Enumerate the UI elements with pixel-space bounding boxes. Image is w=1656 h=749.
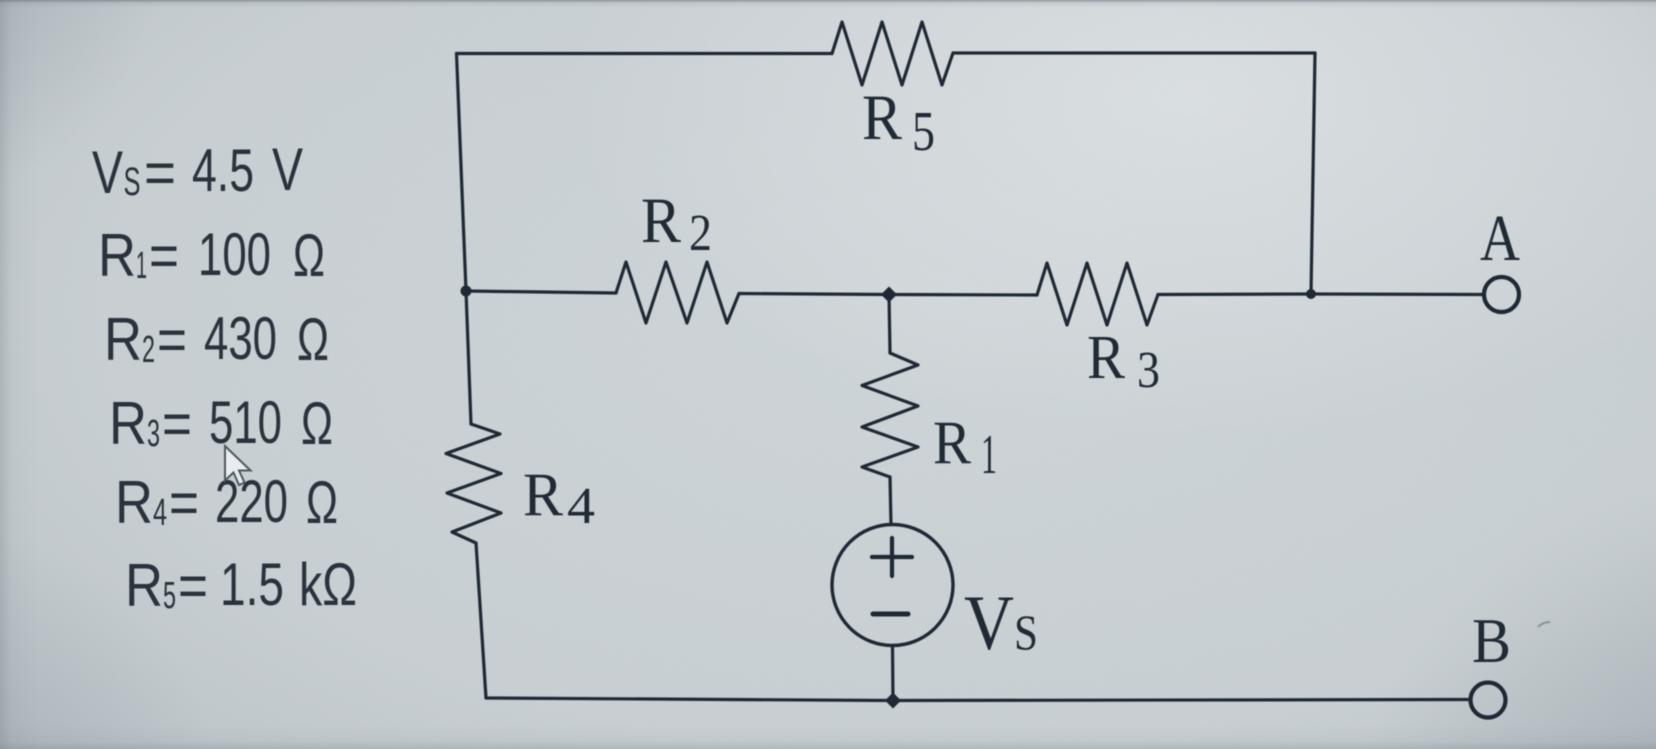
svg-text:1: 1: [981, 424, 997, 486]
svg-text:510: 510: [209, 389, 282, 456]
wire middle node to R3: [889, 293, 1037, 297]
node junction bottom: [885, 693, 901, 709]
value line R1= 100 ohm: [98, 221, 325, 289]
wire right vertical (top to node): [1311, 53, 1315, 294]
resistor R2: [616, 262, 739, 323]
svg-text:5: 5: [912, 101, 935, 163]
wire right node to terminal A: [1311, 292, 1484, 296]
svg-text:S: S: [1014, 604, 1038, 660]
svg-text:4: 4: [567, 478, 595, 535]
svg-text:R: R: [104, 306, 142, 373]
svg-text:R: R: [109, 390, 147, 457]
svg-text:Ω: Ω: [306, 469, 338, 536]
svg-text:430: 430: [204, 305, 277, 372]
svg-text:=: =: [162, 390, 192, 457]
resistor R4: [446, 424, 501, 543]
svg-text:2: 2: [689, 205, 712, 262]
svg-text:R: R: [115, 469, 153, 536]
value line VS= 4.5 V: [92, 136, 303, 206]
left value list: [92, 136, 357, 619]
svg-text:V: V: [92, 139, 123, 206]
VS minus sign: [873, 612, 908, 617]
svg-text:3: 3: [147, 413, 160, 455]
resistor R5: [832, 22, 953, 85]
svg-text:B: B: [1472, 605, 1511, 676]
svg-text:V: V: [964, 579, 1014, 666]
svg-text:Ω: Ω: [293, 222, 325, 289]
node junction middle: [881, 287, 897, 303]
label R3: [1087, 324, 1160, 399]
svg-text:2: 2: [142, 329, 155, 371]
svg-text:100: 100: [198, 221, 271, 288]
svg-text:V: V: [272, 136, 303, 203]
wire R1 to source VS: [890, 477, 891, 525]
svg-text:R: R: [98, 222, 136, 289]
svg-text:R: R: [1087, 324, 1126, 392]
svg-text:3: 3: [1137, 342, 1160, 399]
terminal B circle: [1471, 683, 1506, 718]
node junction left: [461, 286, 472, 297]
terminal A circle: [1484, 277, 1519, 312]
svg-text:Ω: Ω: [297, 306, 329, 373]
value line R3= 510 ohm: [109, 389, 333, 457]
wire R2 to middle node: [739, 294, 889, 295]
svg-text:R: R: [125, 552, 163, 619]
wire left vertical bottom: [476, 543, 486, 698]
label R5: [862, 82, 935, 163]
value line R2= 430 ohm: [104, 305, 329, 373]
label R1: [933, 410, 997, 486]
scratch mark near B: [1538, 622, 1550, 627]
svg-text:=: =: [169, 469, 199, 536]
svg-text:R: R: [523, 462, 563, 529]
svg-text:R: R: [641, 185, 682, 257]
node junction right: [1306, 289, 1316, 299]
svg-text:R: R: [862, 82, 903, 154]
svg-text:=: =: [157, 306, 187, 373]
VS plus sign: [872, 538, 912, 576]
wire top horizontal right: [953, 51, 1315, 54]
value line R4= 220 ohm: [115, 468, 338, 536]
svg-text:4.5: 4.5: [192, 137, 254, 204]
svg-text:=: =: [178, 552, 208, 619]
svg-text:=: =: [144, 139, 176, 206]
wire middle node down to R1: [889, 295, 890, 354]
wire top horizontal left: [457, 52, 833, 55]
svg-text:5: 5: [163, 575, 176, 617]
resistor R1: [862, 353, 918, 477]
value line R5= 1.5 kohm: [125, 551, 357, 619]
svg-text:1: 1: [136, 245, 147, 287]
svg-text:kΩ: kΩ: [299, 551, 357, 618]
wire middle horizontal: node to R2: [466, 291, 616, 293]
voltage source VS circle: [832, 525, 953, 646]
wire R3 to right node: [1158, 292, 1311, 296]
svg-text:=: =: [149, 222, 179, 289]
label R4: [523, 462, 595, 535]
svg-text:A: A: [1480, 202, 1520, 275]
label VS: [964, 579, 1038, 666]
wire bottom horizontal: [486, 698, 1471, 701]
wire VS to bottom node: [891, 646, 895, 701]
label R2: [641, 185, 712, 262]
svg-text:S: S: [124, 160, 141, 204]
svg-text:Ω: Ω: [301, 390, 333, 457]
svg-text:4: 4: [153, 492, 167, 534]
svg-text:1.5: 1.5: [220, 551, 284, 618]
wire left vertical top: [457, 54, 472, 425]
resistor R3: [1037, 263, 1158, 325]
svg-text:R: R: [933, 410, 971, 477]
mouse cursor: [225, 446, 251, 485]
